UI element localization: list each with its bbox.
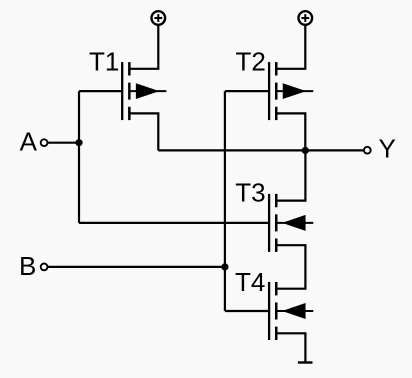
- svg-text:T1: T1: [89, 47, 119, 77]
- wire A to T1 gate: [79, 90, 122, 92]
- junction dot B: [221, 263, 228, 270]
- transistor T4 (NMOS): [269, 282, 313, 340]
- wire B vertical rail: [224, 91, 226, 311]
- svg-text:T3: T3: [235, 178, 265, 208]
- wire output node Y: [158, 149, 363, 151]
- terminal B: [41, 264, 48, 271]
- transistor T3 (NMOS): [269, 194, 313, 252]
- wire A vertical rail: [78, 91, 80, 223]
- svg-text:T4: T4: [235, 267, 265, 297]
- transistor T1 (PMOS): [122, 62, 166, 120]
- power supply terminal +V1: [152, 11, 166, 25]
- power supply terminal +V2: [299, 11, 313, 25]
- terminal Y: [364, 147, 371, 154]
- wire +V1 to T1 drain: [129, 26, 158, 69]
- svg-text:Y: Y: [379, 134, 396, 164]
- wire B to junction: [48, 266, 225, 268]
- svg-text:A: A: [20, 127, 38, 157]
- junction dot at output node: [302, 147, 309, 154]
- wire B to T4 gate: [225, 310, 269, 312]
- svg-text:T2: T2: [236, 47, 266, 77]
- wire T3 source to T4 drain: [276, 245, 305, 289]
- ground: [298, 361, 313, 363]
- wire T2 source to output node: [276, 113, 305, 150]
- transistor T2 (PMOS): [269, 62, 313, 120]
- wire +V2 to T2 drain: [276, 26, 305, 69]
- wire T4 source to ground: [276, 333, 305, 362]
- svg-text:B: B: [19, 251, 36, 281]
- wire T1 source to output node: [129, 113, 158, 150]
- junction dot A: [75, 139, 82, 146]
- wire A to junction: [48, 142, 79, 144]
- wire B to T2 gate: [225, 90, 269, 92]
- terminal A: [41, 139, 48, 146]
- wire T3 drain to output node: [276, 150, 305, 200]
- wire A to T3 gate: [79, 222, 269, 224]
